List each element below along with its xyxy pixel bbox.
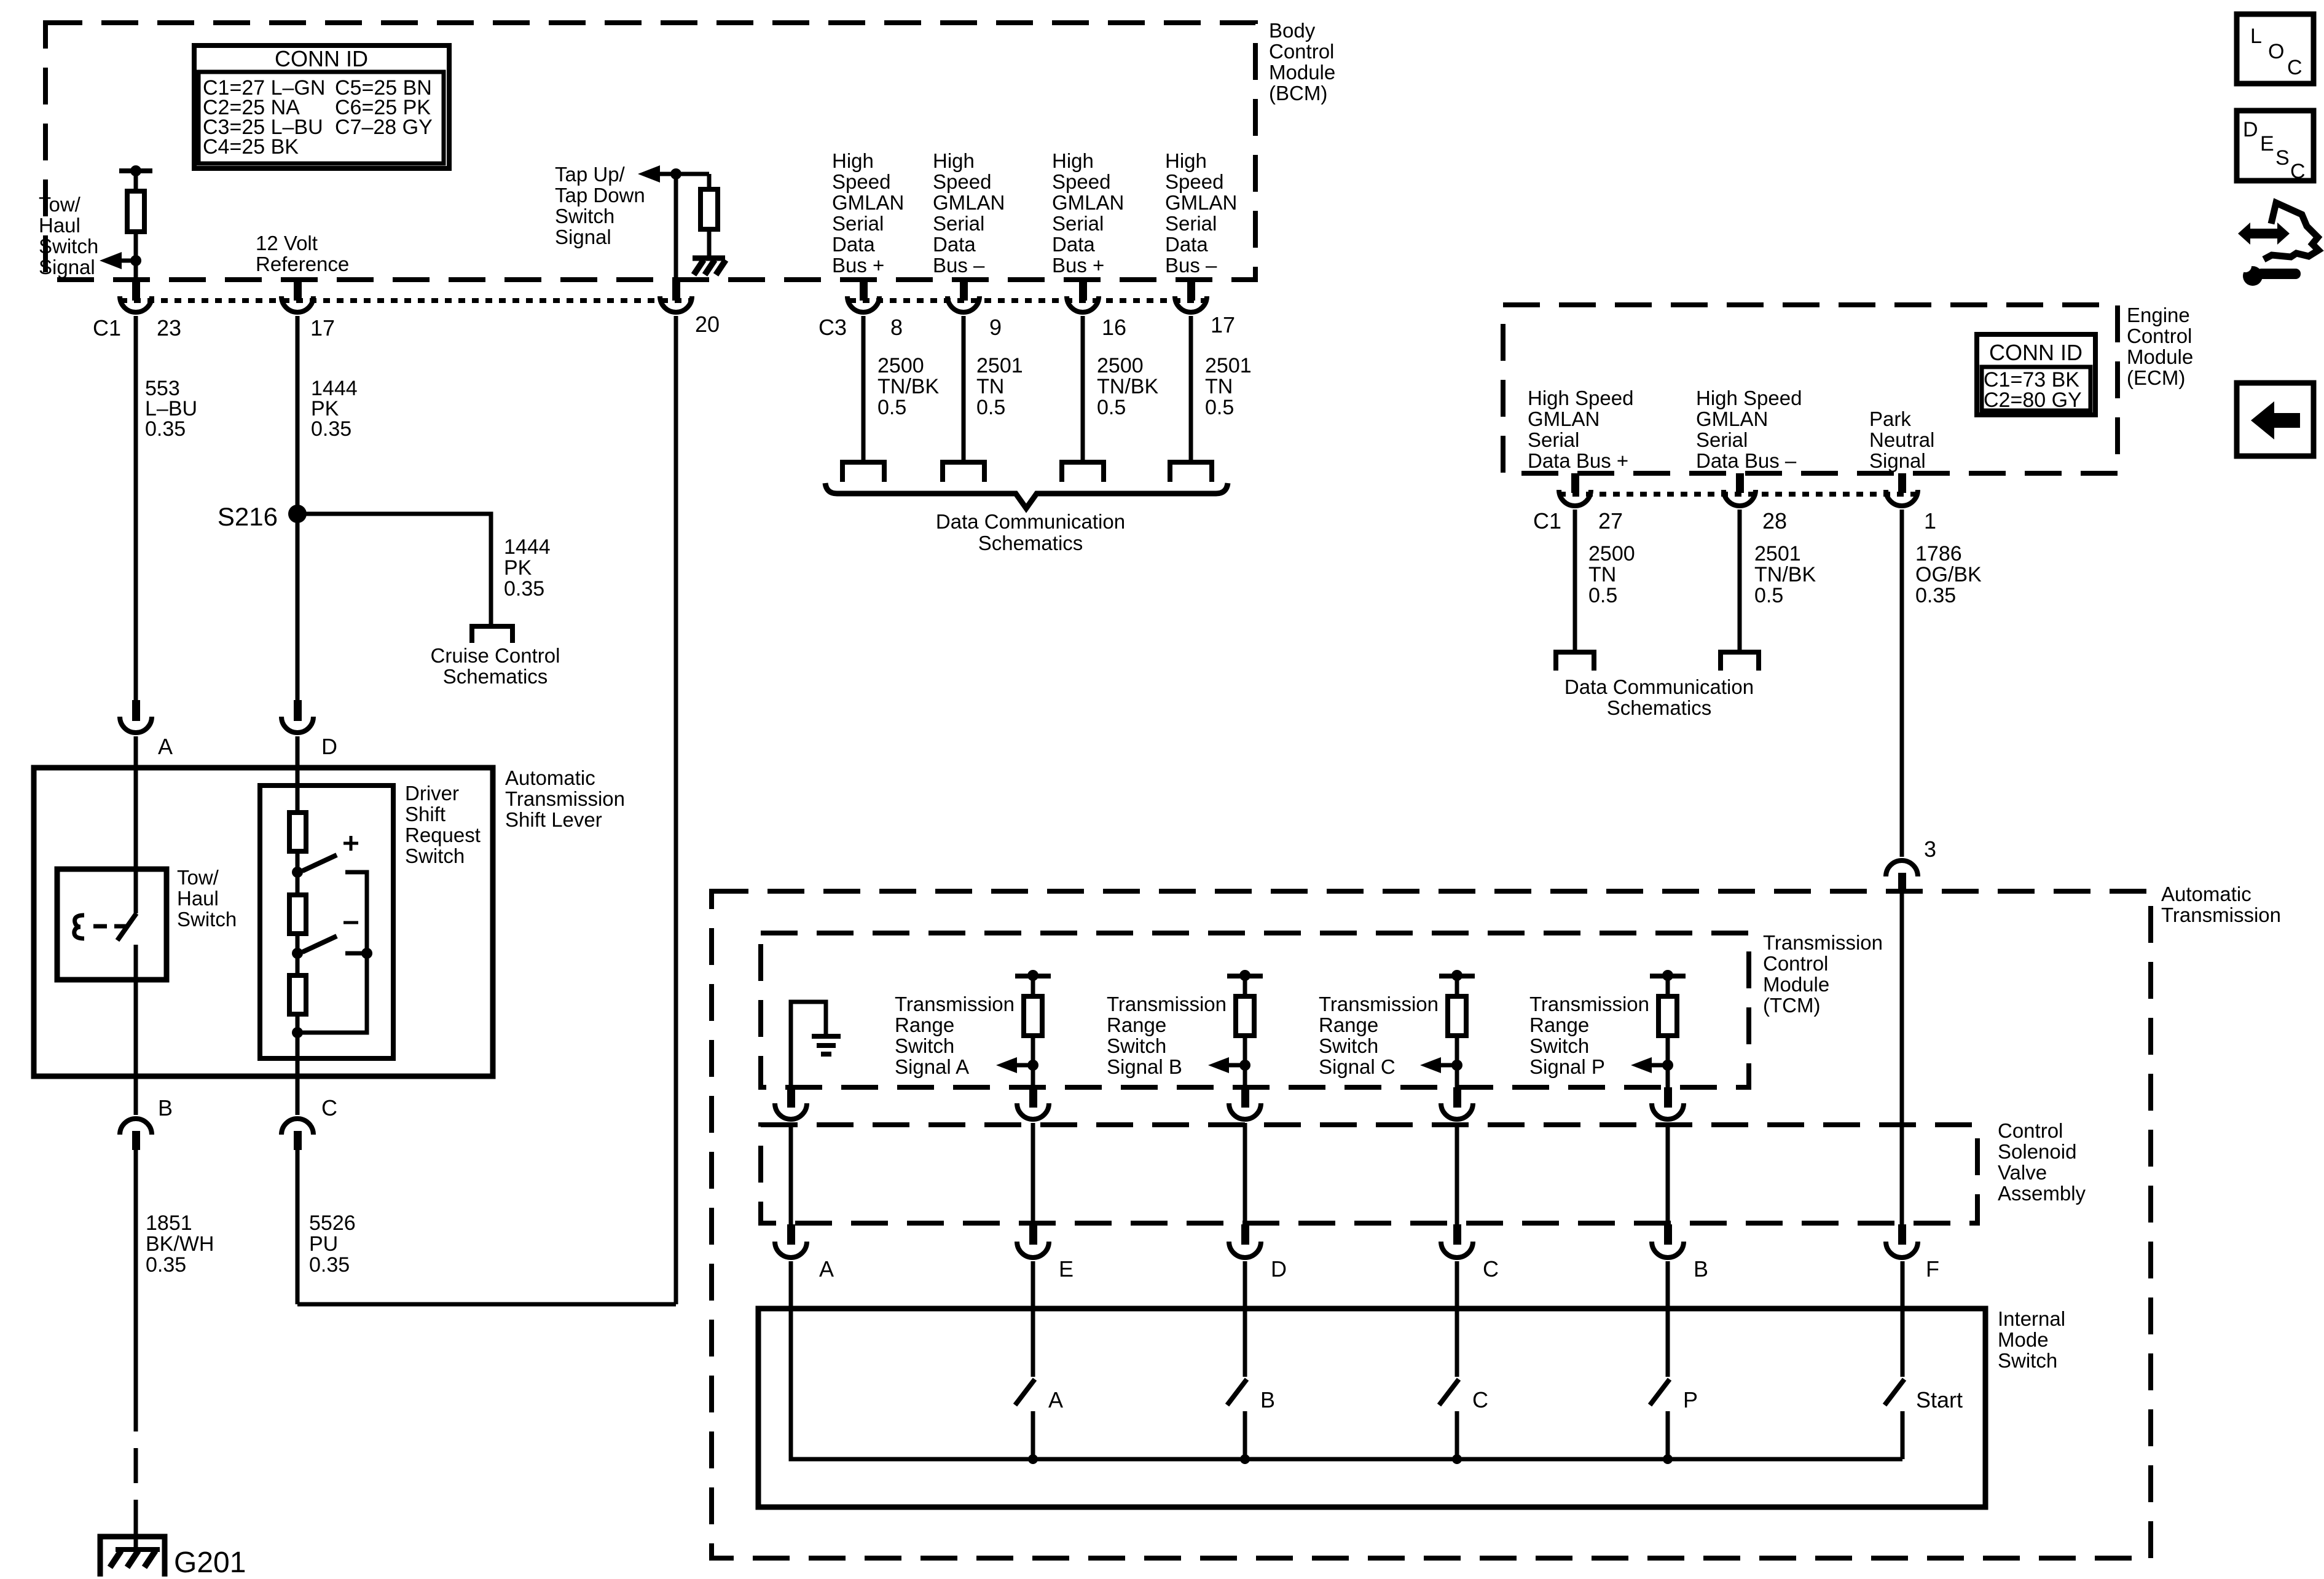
connector C3 pin 9 [948, 296, 979, 312]
pin 23 stub [132, 280, 140, 301]
svg-text:23: 23 [157, 315, 181, 341]
pin 17 stub [1187, 280, 1195, 301]
hotlink icon outline [2264, 203, 2318, 259]
switch A [1031, 1261, 1035, 1377]
pin 28 stub [1736, 473, 1744, 493]
svg-text:F: F [1926, 1256, 1939, 1282]
fixed contact - [345, 951, 367, 956]
Automatic Transmission dashed box [712, 891, 2151, 1558]
connector ECM C1 pin 27 [1559, 490, 1591, 506]
node top bar Tow/Haul [119, 168, 152, 173]
connector E [1017, 1242, 1049, 1258]
wire A into shift lever [134, 736, 138, 913]
wire tap loop down [674, 316, 678, 1304]
switch C [1455, 1261, 1459, 1377]
svg-text:9: 9 [989, 315, 1002, 340]
svg-text:CONN ID: CONN ID [275, 46, 368, 71]
pin 27 stub [1571, 473, 1579, 493]
CONN ID table (ECM) [1977, 334, 2095, 415]
pin 8 stub [860, 280, 868, 301]
ground G201 [100, 1537, 165, 1577]
off-page stub data bus 3 [1062, 462, 1104, 482]
wire D into shift lever [296, 736, 300, 813]
svg-text:C1: C1 [93, 315, 121, 341]
pin 1 stub [1898, 473, 1906, 493]
minus sign [343, 921, 358, 924]
node bar Signal B [1227, 974, 1263, 979]
wire 553 L-BU [134, 316, 138, 700]
svg-text:S: S [2275, 146, 2290, 170]
Tow/Haul switch blade [117, 913, 136, 940]
wire 2500 TN/BK [1081, 316, 1085, 460]
arrow Signal P [1631, 1057, 1652, 1073]
connector row ECM C1 dotted line [1559, 492, 1918, 497]
svg-text:A: A [158, 734, 173, 759]
resistor Signal C [1448, 996, 1466, 1036]
switch Start [1901, 1261, 1905, 1377]
node junction 1 [292, 867, 303, 878]
svg-text:C: C [1472, 1387, 1488, 1412]
connector TCM D [1229, 1103, 1261, 1119]
Tow/Haul switch box [57, 869, 167, 980]
Transmission Control Module (TCM) dashed box [761, 933, 1749, 1087]
wire [134, 171, 138, 191]
pin stub TCM C [1453, 1087, 1461, 1108]
connector C3 pin 16 [1067, 296, 1099, 312]
svg-text:Start: Start [1916, 1387, 1963, 1412]
connector C1 pin 23 [120, 296, 152, 312]
Control Solenoid Valve Assembly dashed box [761, 1125, 1977, 1223]
pin stub TCM B [1664, 1087, 1672, 1108]
svg-text:B: B [1260, 1387, 1275, 1412]
LOC icon box [2237, 14, 2314, 84]
svg-text:1: 1 [1924, 508, 1936, 534]
resistor Signal P [1659, 996, 1677, 1036]
svg-text:17: 17 [1211, 312, 1235, 337]
node junction 3 [292, 1027, 303, 1038]
svg-text:E: E [2260, 132, 2274, 156]
svg-text:CONN ID: CONN ID [1989, 340, 2083, 365]
wire [707, 174, 712, 189]
wires through CSVA [789, 1123, 793, 1224]
pin stub TCM D [1241, 1087, 1249, 1108]
resistor Signal B [1236, 996, 1254, 1036]
connector F [1886, 1242, 1918, 1258]
svg-text:EngineControlModule(ECM): EngineControlModule(ECM) [2127, 304, 2193, 389]
svg-text:G201: G201 [174, 1546, 246, 1579]
wire 2500 TN (ECM) [1573, 510, 1577, 652]
pin stub D [1241, 1224, 1249, 1245]
DESC icon box [2237, 111, 2314, 181]
connector C3 pin 17 [1175, 296, 1207, 312]
arrow Tap Up/Tap Down [638, 165, 660, 183]
svg-text:S216: S216 [218, 502, 278, 531]
wire 1786 OG/BK park neutral [1900, 510, 1904, 857]
svg-text:17: 17 [310, 315, 335, 341]
Internal Mode Switch box [758, 1309, 1985, 1507]
pin stub F [1898, 1224, 1906, 1245]
connector 3 on park neutral wire [1886, 860, 1918, 876]
splice S216 [288, 505, 307, 523]
wire 1851 BK/WH [134, 1150, 138, 1396]
pin 17 stub [294, 280, 302, 301]
pin 20 stub [672, 280, 680, 301]
svg-text:P: P [1683, 1387, 1698, 1412]
pin stub E [1029, 1224, 1037, 1245]
svg-text:E: E [1059, 1256, 1074, 1282]
node junction [130, 255, 141, 266]
svg-text:L: L [2250, 25, 2262, 48]
connector TCM A [775, 1103, 807, 1119]
connector TCM C [1441, 1103, 1473, 1119]
wire 2501 TN [962, 316, 966, 460]
wire 1851 dashed section [134, 1396, 138, 1532]
svg-text:C: C [321, 1095, 337, 1120]
svg-text:27: 27 [1598, 508, 1623, 534]
pin stub B [1664, 1224, 1672, 1245]
back arrow icon box [2237, 383, 2314, 456]
Automatic Transmission Shift Lever box [34, 768, 493, 1076]
off-page stub data bus 1 [842, 462, 884, 482]
connector TCM B [1652, 1103, 1684, 1119]
node bar Signal A [1015, 974, 1051, 979]
svg-text:8: 8 [890, 315, 903, 340]
Tow/Haul switch detent symbol [74, 915, 84, 939]
resistor Tow/Haul pull-up [127, 191, 144, 232]
pin 9 stub [960, 280, 968, 301]
arrow Tow/Haul switch signal [100, 252, 122, 269]
Tow/Haul switch linkage dashes [93, 924, 107, 929]
node bar Signal C [1439, 974, 1475, 979]
wire [296, 851, 300, 895]
svg-text:A: A [819, 1256, 834, 1282]
resistor DSRS R3 [289, 975, 306, 1014]
ground (TCM signal ground) [812, 1034, 841, 1039]
off-page stub ECM bus 1 [1556, 652, 1594, 671]
connector A (shift lever) [120, 717, 152, 733]
wire A out of switch [134, 945, 138, 1115]
resistor DSRS R2 [289, 895, 306, 934]
switch P [1666, 1261, 1670, 1377]
svg-text:C5=25 BNC6=25 PKC7–28 GY: C5=25 BNC6=25 PKC7–28 GY [335, 76, 433, 139]
fixed contact + [345, 872, 367, 953]
resistor Signal A [1024, 996, 1042, 1036]
wire [296, 1014, 300, 1058]
svg-text:16: 16 [1102, 315, 1126, 340]
svg-text:C1: C1 [1533, 508, 1561, 534]
wire 5526 PU [296, 1150, 300, 1304]
Driver Shift Request Switch box [260, 786, 393, 1058]
connector D [1229, 1242, 1261, 1258]
resistor DSRS R1 [289, 813, 306, 851]
node junction [670, 168, 681, 179]
plus sign [343, 842, 358, 845]
Engine Control Module (ECM) dashed box [1503, 305, 2118, 473]
connector C (shift lever out) [281, 1119, 313, 1135]
svg-text:B: B [158, 1095, 173, 1120]
node junction on link [361, 948, 372, 959]
resistor Tap Up/Down pull-up [701, 189, 718, 229]
svg-text:Cruise ControlSchematics: Cruise ControlSchematics [431, 644, 560, 688]
svg-text:D: D [2243, 118, 2258, 141]
ground chassis (BCM internal) [693, 256, 725, 261]
svg-text:D: D [1271, 1256, 1287, 1282]
switch B [1243, 1261, 1247, 1377]
arrow Signal C [1420, 1057, 1441, 1073]
off-page stub data bus 2 [943, 462, 984, 482]
pin stub C [1453, 1224, 1461, 1245]
pin stub TCM A [787, 1087, 795, 1108]
wire 2501 TN/BK (ECM) [1738, 510, 1742, 652]
switch blade + [302, 855, 337, 871]
svg-text:O: O [2268, 40, 2284, 63]
connector ECM C1 pin 28 [1724, 490, 1756, 506]
svg-text:C1=73 BKC2=80 GY: C1=73 BKC2=80 GY [1984, 368, 2082, 412]
svg-text:C: C [1483, 1256, 1499, 1282]
arrow Signal A [996, 1057, 1017, 1073]
svg-text:C: C [2290, 160, 2306, 183]
wire D out of DSRS [296, 1058, 300, 1115]
wire branch to cruise control [297, 514, 491, 626]
wire link bottom [297, 953, 367, 1033]
node junction 2 [292, 948, 303, 959]
wire [296, 934, 300, 975]
connector B (shift lever out) [120, 1119, 152, 1135]
wire [660, 172, 709, 176]
svg-text:20: 20 [695, 312, 720, 337]
svg-text:D: D [321, 734, 337, 759]
connector C [1441, 1242, 1473, 1258]
wire A to bus [791, 1261, 1902, 1459]
wire 2500 TN/BK [862, 316, 866, 460]
off-page stub data bus 4 [1170, 462, 1212, 482]
wire 2501 TN [1189, 316, 1193, 460]
wire [707, 229, 712, 258]
connector B [1652, 1242, 1684, 1258]
svg-text:B: B [1694, 1256, 1708, 1282]
connector TCM E [1017, 1103, 1049, 1119]
connector row C1 dotted line [120, 298, 692, 303]
hotlink icon wrench [2239, 260, 2301, 286]
switch blade - [302, 936, 337, 952]
connector ECM C1 pin 1 [1886, 490, 1918, 506]
connector C3 pin 8 [847, 296, 879, 312]
off-page stub ECM bus 2 [1721, 652, 1759, 671]
svg-text:3: 3 [1924, 837, 1936, 862]
wire [134, 232, 138, 282]
connector C1 pin 20 [660, 296, 692, 312]
pin 16 stub [1079, 280, 1087, 301]
wire tap down to pin 20 [674, 174, 678, 280]
svg-text:C: C [2287, 56, 2302, 79]
hotlink icon double arrow [2238, 222, 2290, 245]
wire 1444 PK upper [296, 316, 300, 700]
node bar Signal P [1650, 974, 1686, 979]
brace data communication [825, 483, 1228, 508]
pin stub TCM E [1029, 1087, 1037, 1108]
svg-text:A: A [1048, 1387, 1063, 1412]
connector A stub [132, 700, 140, 721]
connector D stub [294, 700, 302, 721]
connector C1 pin 17 [281, 296, 313, 312]
connector D (shift lever) [281, 717, 313, 733]
pin stub A [787, 1224, 795, 1245]
TCM ground return wire [791, 1002, 826, 1087]
wire tap loop bottom [297, 1302, 676, 1307]
svg-text:28: 28 [1762, 508, 1787, 534]
connector row C3 dotted line [849, 298, 1207, 303]
off-page stub cruise control [472, 626, 512, 643]
connector A [775, 1242, 807, 1258]
CONN ID table (BCM) [194, 45, 449, 168]
svg-text:C3: C3 [819, 315, 847, 340]
Body Control Module (BCM) dashed box [45, 23, 1255, 280]
arrow Signal B [1208, 1057, 1229, 1073]
